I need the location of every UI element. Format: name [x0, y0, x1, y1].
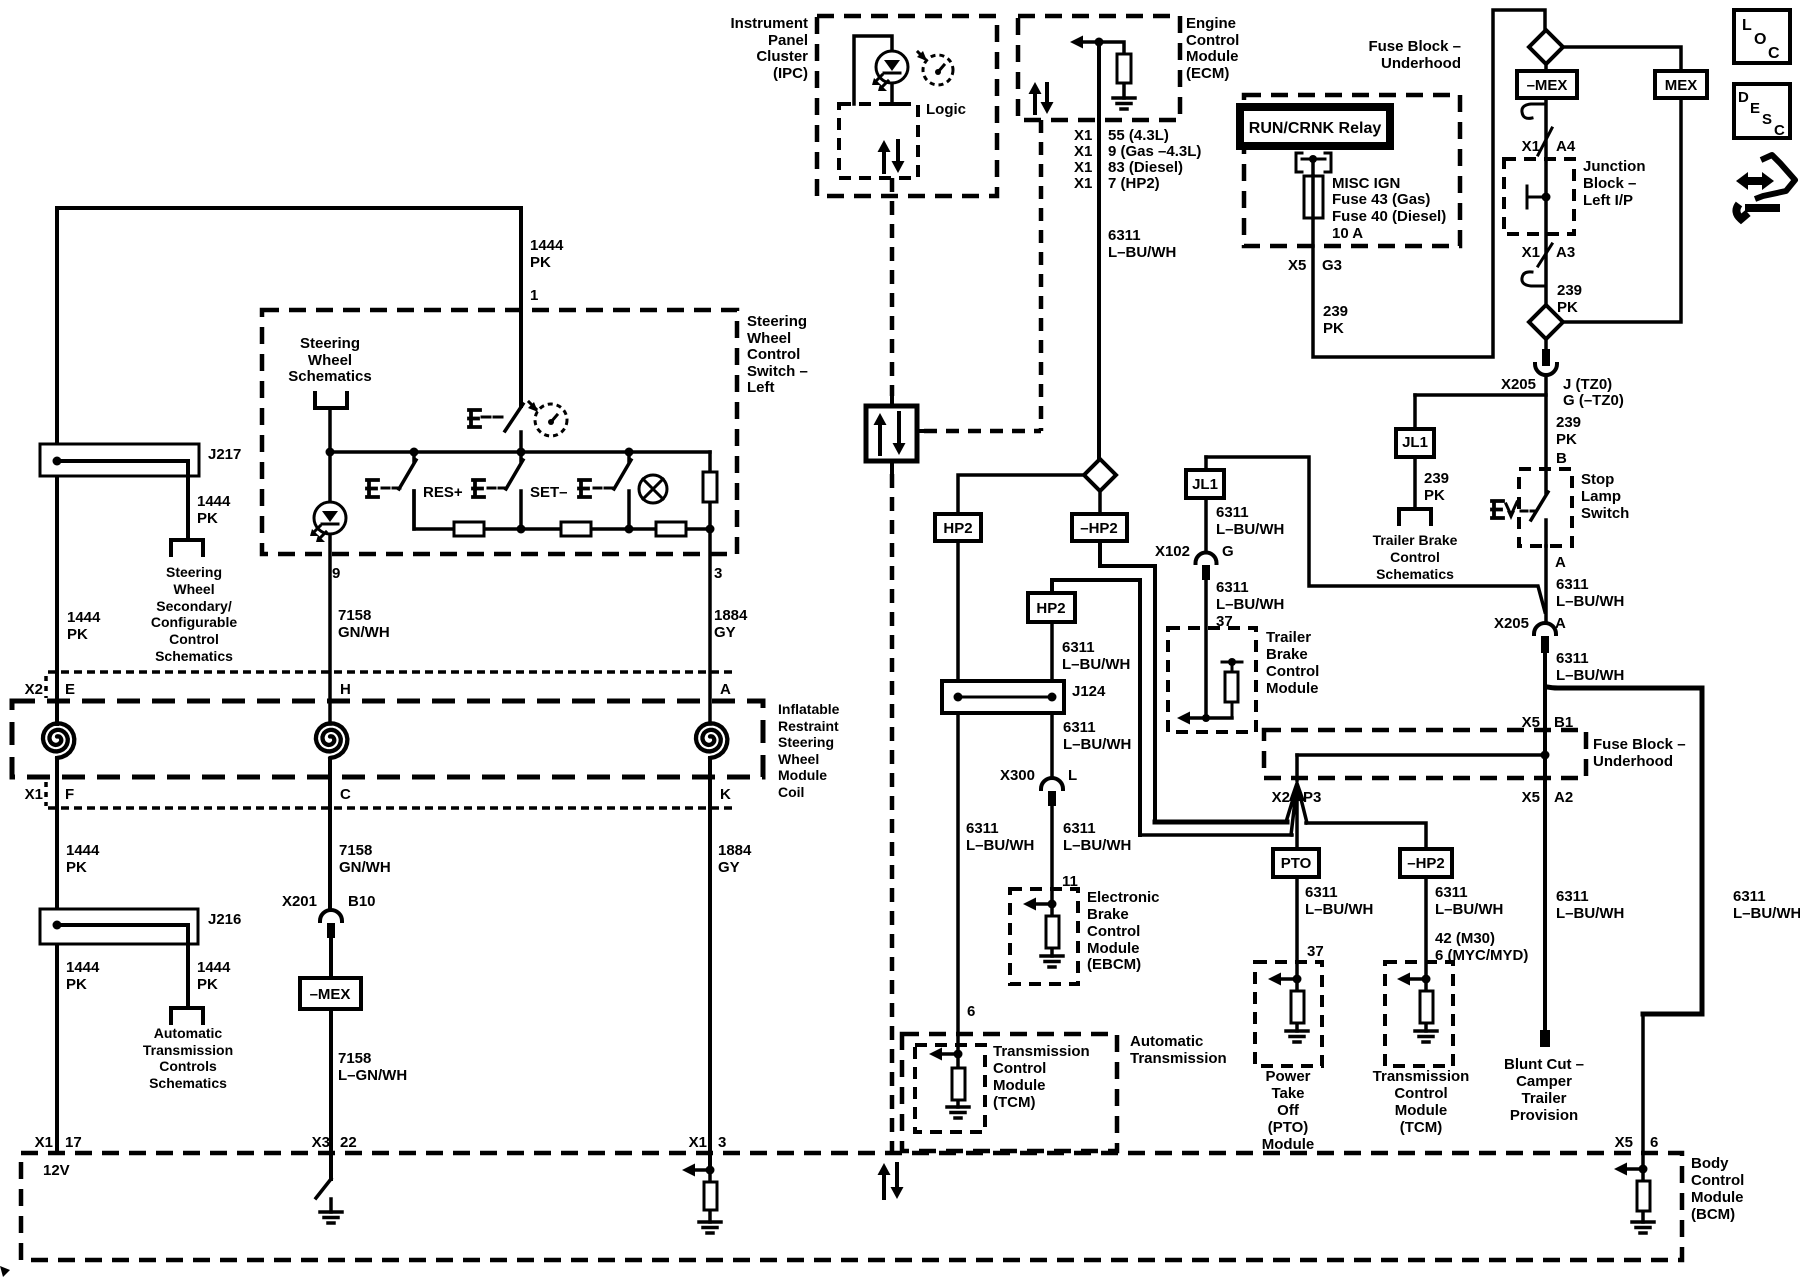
svg-text:X1: X1 [1522, 138, 1540, 155]
svg-text:PK: PK [197, 510, 218, 527]
svg-text:C: C [340, 786, 351, 803]
svg-text:Module: Module [778, 767, 827, 783]
ground inside TCM lower [1415, 1031, 1437, 1042]
svg-text:Camper: Camper [1516, 1073, 1572, 1090]
svg-text:Trailer: Trailer [1521, 1090, 1566, 1107]
svg-text:6311: 6311 [1063, 719, 1096, 736]
wire: diamond left to HP2 [958, 475, 1084, 514]
box: Transmission Control Module TCM (dashed) [915, 1045, 985, 1132]
svg-text:L–BU/WH: L–BU/WH [1556, 593, 1624, 610]
svg-text:239: 239 [1424, 470, 1449, 487]
icon: LOC box [1734, 10, 1790, 63]
svg-text:Transmission: Transmission [143, 1042, 233, 1058]
svg-text:1444: 1444 [67, 609, 101, 626]
svg-text:Trailer Brake: Trailer Brake [1373, 532, 1458, 548]
svg-text:1884: 1884 [718, 842, 752, 859]
svg-text:1884: 1884 [714, 607, 748, 624]
svg-text:(PTO): (PTO) [1268, 1119, 1309, 1136]
wire: 1444 PK feed from IPC area, left rail down to BCM X1-17 [57, 208, 521, 1153]
junction arrow inside BCM (X1-3) [682, 1164, 695, 1177]
svg-text:–HP2: –HP2 [1080, 520, 1118, 537]
E actuator for stop lamp switch [1492, 501, 1503, 518]
svg-text:6311: 6311 [1733, 888, 1766, 905]
svg-text:Provision: Provision [1510, 1107, 1578, 1124]
arrow and resistor inside PTO module [1268, 973, 1281, 986]
box: Body Control Module BCM (dashed) [21, 1153, 1682, 1260]
lamp: illumination bulb circle-X [639, 475, 667, 503]
svg-text:(TCM): (TCM) [993, 1094, 1035, 1111]
svg-text:7158: 7158 [338, 607, 371, 624]
svg-text:L–BU/WH: L–BU/WH [1062, 656, 1130, 673]
svg-text:Cluster: Cluster [756, 48, 808, 65]
svg-text:9 (Gas –4.3L): 9 (Gas –4.3L) [1108, 143, 1201, 160]
svg-text:6: 6 [1650, 1134, 1658, 1151]
svg-text:Switch –: Switch – [747, 363, 808, 380]
svg-text:J (TZ0): J (TZ0) [1563, 376, 1612, 393]
svg-text:X102: X102 [1155, 543, 1190, 560]
svg-text:Lamp: Lamp [1581, 488, 1621, 505]
switch RES+ branch [399, 452, 416, 529]
svg-text:PK: PK [66, 859, 87, 876]
node: bus junction dots [326, 448, 335, 457]
bracket to steering wheel schematics [315, 393, 347, 408]
ground inside PTO module [1286, 1031, 1308, 1042]
svg-text:C: C [1768, 45, 1780, 62]
arrow and resistor inside TCM [929, 1048, 942, 1061]
box: Steering Wheel Control Switch - Left (dashed) [262, 310, 737, 554]
svg-text:239: 239 [1557, 282, 1582, 299]
wire: top bus inside steering wheel control switch [330, 450, 710, 454]
svg-text:Steering: Steering [778, 734, 834, 750]
svg-text:Control: Control [993, 1060, 1046, 1077]
svg-text:(IPC): (IPC) [773, 65, 808, 82]
svg-text:Restraint: Restraint [778, 718, 839, 734]
svg-text:PK: PK [197, 976, 218, 993]
wire: bottom bus with resistors [414, 491, 710, 529]
switch lamp branch [614, 452, 631, 529]
connector row X2 (dotted) [48, 670, 737, 674]
box: Power Take Off PTO Module (dashed) [1255, 962, 1322, 1066]
svg-text:Switch: Switch [1581, 505, 1629, 522]
switch: cruise on/off in steering wheel switch [505, 404, 523, 452]
svg-text:L–BU/WH: L–BU/WH [1216, 596, 1284, 613]
svg-text:X1: X1 [25, 786, 43, 803]
svg-text:Power: Power [1265, 1068, 1310, 1085]
box: Junction Block - Left I/P (dashed) [1504, 159, 1574, 234]
box: Fuse Block Underhood lower (dashed) [1264, 730, 1586, 778]
svg-text:Left: Left [747, 379, 775, 396]
svg-text:Control: Control [747, 346, 800, 363]
svg-text:X205: X205 [1494, 615, 1529, 632]
svg-text:Module: Module [1087, 940, 1140, 957]
wire: HP2 lower down through J124 to X300 [1050, 622, 1054, 778]
resistor R1 [454, 522, 484, 536]
svg-text:Left I/P: Left I/P [1583, 192, 1633, 209]
svg-text:7158: 7158 [339, 842, 372, 859]
wire: MEX branch [1563, 47, 1681, 322]
arrow and resistor inside TCM lower [1397, 973, 1410, 986]
svg-text:X205: X205 [1501, 376, 1536, 393]
wire: dashed serial data down to BCM [890, 474, 895, 1153]
box: Automatic Transmission (outer dashed) [902, 1034, 1117, 1151]
junction arrow inside ECM [1070, 36, 1083, 49]
svg-text:RUN/CRNK Relay: RUN/CRNK Relay [1249, 120, 1382, 137]
junction block contact [1527, 186, 1542, 208]
svg-text:PK: PK [530, 254, 551, 271]
bracket to automatic transmission controls schematics [171, 1008, 203, 1023]
svg-text:PK: PK [1323, 320, 1344, 337]
svg-text:GY: GY [718, 859, 740, 876]
ground inside BCM (X1-3) [699, 1222, 721, 1233]
svg-text:Schematics: Schematics [288, 368, 371, 385]
svg-text:Module: Module [993, 1077, 1046, 1094]
wire: JL1 link to X205 [1415, 393, 1546, 397]
wire: 7158 to -MEX [329, 938, 333, 978]
svg-text:Steering: Steering [166, 564, 222, 580]
svg-text:Wheel: Wheel [778, 751, 819, 767]
svg-text:Engine: Engine [1186, 15, 1236, 32]
ground inside BCM (X5-6) [1632, 1222, 1654, 1233]
svg-text:PK: PK [1557, 299, 1578, 316]
LED: IPC indicator [876, 51, 908, 83]
resistor inside ECM [1099, 42, 1124, 98]
svg-text:239: 239 [1556, 414, 1581, 431]
wire: 6311 main down to blunt cut [1543, 653, 1547, 1030]
svg-text:6311: 6311 [1062, 639, 1095, 656]
svg-text:83 (Diesel): 83 (Diesel) [1108, 159, 1183, 176]
svg-text:PTO: PTO [1281, 855, 1312, 872]
svg-text:(BCM): (BCM) [1691, 1206, 1735, 1223]
box: Transmission Control Module TCM lower (dashed) [1385, 962, 1453, 1066]
component -HP2 (lower) [1400, 849, 1452, 877]
svg-text:X300: X300 [1000, 767, 1035, 784]
wire: 1884 GY below coil [708, 758, 712, 1170]
svg-text:Inflatable: Inflatable [778, 701, 840, 717]
splice bar and resistor inside trailer brake module [1222, 662, 1242, 718]
svg-text:6: 6 [967, 1003, 975, 1020]
coil: middle spiral [316, 723, 348, 758]
svg-text:Blunt Cut –: Blunt Cut – [1504, 1056, 1584, 1073]
svg-text:Automatic: Automatic [1130, 1033, 1203, 1050]
svg-text:JL1: JL1 [1192, 476, 1218, 493]
svg-text:J124: J124 [1072, 683, 1106, 700]
connector J217 [40, 444, 199, 476]
resistor R2 [561, 522, 591, 536]
svg-text:X1: X1 [35, 1134, 53, 1151]
wire: steering wheel schematics branch with LED [328, 408, 332, 724]
svg-text:L–BU/WH: L–BU/WH [1063, 837, 1131, 854]
svg-text:L–BU/WH: L–BU/WH [1108, 244, 1176, 261]
svg-text:P3: P3 [1303, 789, 1321, 806]
svg-text:X201: X201 [282, 893, 317, 910]
svg-text:GN/WH: GN/WH [339, 859, 391, 876]
box: Inflatable Restraint Steering Wheel Module Coil (heavy dashed) [12, 701, 763, 777]
svg-text:X1: X1 [689, 1134, 707, 1151]
svg-text:6311: 6311 [966, 820, 999, 837]
svg-text:17: 17 [65, 1134, 82, 1151]
wire: X300 down to EBCM [1050, 806, 1054, 904]
svg-text:F: F [65, 786, 74, 803]
svg-text:X1: X1 [1074, 159, 1092, 176]
pigtail hook upper [1522, 104, 1552, 155]
svg-text:X5: X5 [1288, 257, 1306, 274]
pigtail hook lower [1522, 244, 1552, 286]
svg-text:RES+: RES+ [423, 484, 463, 501]
svg-text:Schematics: Schematics [1376, 566, 1454, 582]
svg-text:X5: X5 [1522, 789, 1540, 806]
connector X102 G [1196, 553, 1217, 564]
icon: IPC gauge symbol [918, 52, 924, 58]
svg-text:HP2: HP2 [1036, 600, 1065, 617]
svg-text:Control: Control [1087, 923, 1140, 940]
svg-text:(ECM): (ECM) [1186, 65, 1229, 82]
wire: thick feed from -HP2 top [1155, 820, 1287, 825]
bracket to trailer brake control schematics [1399, 509, 1431, 524]
svg-text:D: D [1738, 89, 1749, 106]
svg-text:6311: 6311 [1556, 576, 1589, 593]
svg-text:Take: Take [1271, 1085, 1304, 1102]
box: Electronic Brake Control Module EBCM (dashed) [1010, 889, 1078, 984]
svg-text:G3: G3 [1322, 257, 1342, 274]
svg-text:3: 3 [714, 565, 722, 582]
svg-text:E: E [1750, 100, 1760, 117]
wire: dashed serial data ECM drop [1039, 120, 1044, 431]
svg-text:Controls: Controls [159, 1058, 217, 1074]
svg-text:Block –: Block – [1583, 175, 1636, 192]
svg-text:Fuse Block –: Fuse Block – [1593, 736, 1686, 753]
coil: left spiral [43, 723, 74, 758]
connector row X1 (dotted) [48, 806, 737, 810]
svg-text:Wheel: Wheel [173, 581, 214, 597]
E symbol lamp switch [579, 480, 590, 497]
svg-text:A4: A4 [1556, 138, 1576, 155]
wire: fuse block internal bus [1297, 753, 1545, 757]
svg-text:B: B [1556, 450, 1567, 467]
svg-text:PK: PK [1556, 431, 1577, 448]
wire: serial data dashed from IPC logic down [890, 178, 895, 396]
box: Stop Lamp Switch (dashed) [1519, 469, 1572, 546]
svg-text:42 (M30): 42 (M30) [1435, 930, 1495, 947]
svg-text:L: L [1742, 17, 1752, 34]
svg-text:L–BU/WH: L–BU/WH [1216, 521, 1284, 538]
svg-text:Steering: Steering [747, 313, 807, 330]
svg-text:6311: 6311 [1216, 579, 1249, 596]
wire: -HP2 down to TCM [1424, 877, 1428, 979]
resistor R4 right vertical [708, 452, 712, 724]
component: serial data gateway box [866, 406, 917, 461]
component -HP2 (upper) [1098, 491, 1102, 514]
component -MEX (top) [1544, 64, 1548, 71]
connector J124 [942, 681, 1064, 713]
LED: steering wheel illumination [314, 502, 346, 534]
svg-text:Control: Control [1691, 1172, 1744, 1189]
ground inside ECM [1113, 98, 1135, 109]
svg-text:L–BU/WH: L–BU/WH [1435, 901, 1503, 918]
svg-text:Schematics: Schematics [149, 1075, 227, 1091]
svg-text:1444: 1444 [197, 959, 231, 976]
svg-text:6311: 6311 [1305, 884, 1338, 901]
svg-text:7158: 7158 [338, 1050, 371, 1067]
switch: stop lamp [1531, 469, 1548, 546]
svg-text:Logic: Logic [926, 101, 966, 118]
svg-text:55 (4.3L): 55 (4.3L) [1108, 127, 1169, 144]
svg-text:–MEX: –MEX [310, 986, 351, 1003]
svg-text:–HP2: –HP2 [1407, 855, 1445, 872]
component HP2 (lower) [1052, 580, 1140, 835]
svg-text:6311: 6311 [1216, 504, 1249, 521]
svg-text:Wheel: Wheel [308, 352, 352, 369]
svg-text:X2: X2 [1272, 789, 1290, 806]
svg-text:A: A [1555, 554, 1566, 571]
box: Engine Control Module ECM (dashed) [1018, 16, 1180, 120]
arrow inside trailer brake module [1206, 716, 1232, 720]
svg-text:6311: 6311 [1435, 884, 1468, 901]
wire: branch right to -HP2 lower [1306, 823, 1426, 849]
svg-text:3: 3 [718, 1134, 726, 1151]
svg-text:PK: PK [67, 626, 88, 643]
svg-text:10 A: 10 A [1332, 225, 1363, 242]
connector X205 J/G [1544, 339, 1548, 349]
wire: JL1 left trailer-brake feed joining X205-A [1206, 457, 1545, 612]
component JL1 (left) [1204, 457, 1208, 470]
svg-text:22: 22 [340, 1134, 357, 1151]
fuse MISC IGN [1311, 159, 1315, 246]
E symbol RES+ [367, 480, 378, 497]
wire: HP2 down through J124 to TCM [956, 541, 960, 1054]
wire: 239 PK to stop lamp switch [1544, 375, 1548, 469]
relay terminal clips [1296, 153, 1331, 172]
svg-text:Control: Control [169, 631, 219, 647]
svg-text:J216: J216 [208, 911, 241, 928]
icon: cruise gauge symbol [529, 402, 536, 409]
svg-text:L–BU/WH: L–BU/WH [966, 837, 1034, 854]
svg-text:Off: Off [1277, 1102, 1300, 1119]
svg-text:X1: X1 [1074, 127, 1092, 144]
svg-text:X3: X3 [312, 1134, 330, 1151]
svg-text:L–BU/WH: L–BU/WH [1556, 667, 1624, 684]
component RUN/CRNK Relay [1240, 107, 1390, 146]
wire: -HP2 route to X2-P3 [1100, 541, 1155, 822]
svg-text:L–BU/WH: L–BU/WH [1063, 736, 1131, 753]
svg-text:G: G [1222, 543, 1234, 560]
svg-text:Transmission: Transmission [1373, 1068, 1470, 1085]
wire: X102 down into trailer brake module [1204, 580, 1208, 718]
svg-text:Automatic: Automatic [154, 1025, 223, 1041]
svg-text:L–GN/WH: L–GN/WH [338, 1067, 407, 1084]
svg-text:Brake: Brake [1087, 906, 1129, 923]
bracket to steering wheel secondary schematics [171, 540, 203, 555]
svg-text:C: C [1774, 122, 1785, 139]
svg-text:239: 239 [1323, 303, 1348, 320]
svg-text:Module: Module [1186, 48, 1239, 65]
E symbol SET- [473, 480, 484, 497]
svg-text:Electronic: Electronic [1087, 889, 1160, 906]
svg-text:Wheel: Wheel [747, 330, 791, 347]
component -MEX (lower) [300, 978, 361, 1009]
wire: dashed serial data to ECM [924, 429, 1041, 434]
svg-text:1444: 1444 [66, 959, 100, 976]
box: IPC logic (inner dashed) [839, 104, 918, 178]
node: diamond splice 6311 [1084, 459, 1116, 491]
wire: PTO down to module [1295, 877, 1299, 979]
svg-text:Schematics: Schematics [155, 648, 233, 664]
resistor inside BCM (X1-3) [708, 1170, 712, 1222]
svg-text:Control: Control [1390, 549, 1440, 565]
svg-text:Control: Control [1394, 1085, 1447, 1102]
svg-text:(EBCM): (EBCM) [1087, 956, 1141, 973]
serial data arrows inside ECM [1033, 90, 1037, 113]
coil: right spiral [696, 723, 727, 758]
serial data arrows inside gateway [878, 421, 882, 454]
svg-text:Module: Module [1691, 1189, 1744, 1206]
arrow and resistor inside BCM (X5-6) [1614, 1163, 1627, 1176]
svg-text:Panel: Panel [768, 32, 808, 49]
svg-text:6311: 6311 [1556, 650, 1589, 667]
box: Fuse Block Underhood (dashed) [1244, 95, 1460, 246]
svg-text:G (–TZ0): G (–TZ0) [1563, 392, 1624, 409]
svg-text:Configurable: Configurable [151, 614, 238, 630]
svg-text:Fuse 40 (Diesel): Fuse 40 (Diesel) [1332, 208, 1446, 225]
ground inside EBCM [1041, 956, 1063, 967]
svg-text:K: K [720, 786, 731, 803]
svg-text:L: L [1068, 767, 1077, 784]
icon: harness arrows [1736, 172, 1774, 190]
E actuator symbol for on/off switch [469, 410, 480, 427]
wire: thick branch to right rail [1547, 687, 1702, 1014]
svg-text:Brake: Brake [1266, 646, 1308, 663]
wire: 1444 PK below coil [55, 759, 59, 1153]
svg-text:S: S [1762, 111, 1772, 128]
node: diamond splice top [1529, 30, 1563, 64]
arrow and resistor inside EBCM [1023, 898, 1036, 911]
svg-text:X5: X5 [1615, 1134, 1633, 1151]
svg-text:SET–: SET– [530, 484, 568, 501]
svg-text:X2: X2 [25, 681, 43, 698]
wire: 6311 L-BU/WH main from ECM [1097, 42, 1101, 459]
svg-text:Steering: Steering [300, 335, 360, 352]
svg-text:Fuse 43 (Gas): Fuse 43 (Gas) [1332, 191, 1430, 208]
svg-text:12V: 12V [43, 1162, 70, 1179]
svg-text:PK: PK [66, 976, 87, 993]
svg-text:Coil: Coil [778, 784, 804, 800]
svg-text:Body: Body [1691, 1155, 1729, 1172]
svg-text:9: 9 [332, 565, 340, 582]
ground inside TCM [947, 1107, 969, 1118]
component MEX [1655, 71, 1707, 98]
svg-text:A: A [720, 681, 731, 698]
svg-text:6311: 6311 [1108, 227, 1141, 244]
svg-text:L–BU/WH: L–BU/WH [1733, 905, 1800, 922]
icon: DESC box [1734, 84, 1790, 138]
component JL1 (right) [1413, 395, 1417, 509]
corner arrow artifact bottom-left [0, 1266, 10, 1277]
svg-text:MEX: MEX [1665, 77, 1698, 94]
svg-text:MISC IGN: MISC IGN [1332, 175, 1400, 192]
svg-text:E: E [65, 681, 75, 698]
wire: 7158 GN/WH below coil [328, 759, 332, 910]
svg-text:X1: X1 [1074, 143, 1092, 160]
box: Instrument Panel Cluster IPC (dashed) [817, 16, 997, 196]
svg-text:Stop: Stop [1581, 471, 1614, 488]
svg-text:X1: X1 [1074, 175, 1092, 192]
node: diamond splice lower [1529, 305, 1563, 339]
serial data arrows inside IPC logic [882, 148, 886, 172]
wire: JL1 to X102 [1204, 498, 1208, 552]
svg-text:1: 1 [530, 287, 538, 304]
svg-text:37: 37 [1307, 943, 1324, 960]
svg-text:A2: A2 [1554, 789, 1573, 806]
svg-text:Module: Module [1395, 1102, 1448, 1119]
